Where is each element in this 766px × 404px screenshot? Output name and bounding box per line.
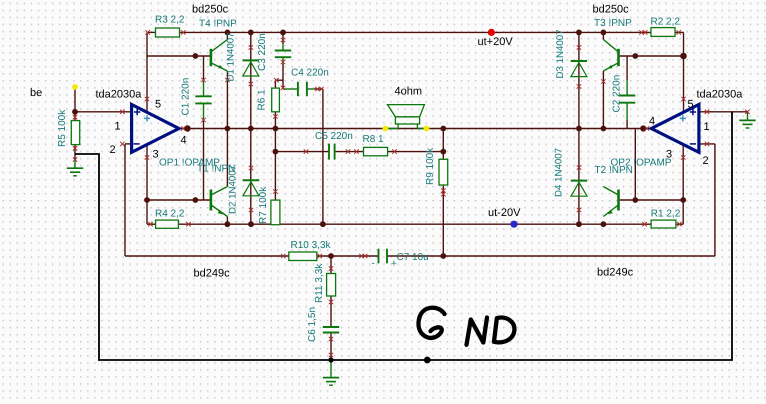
svg-text:C5 220n: C5 220n (315, 131, 353, 142)
svg-text:be: be (30, 87, 42, 99)
svg-text:R5 100k: R5 100k (57, 109, 68, 147)
svg-text:tda2030a: tda2030a (96, 89, 143, 101)
svg-text:R6 1: R6 1 (257, 89, 268, 111)
svg-text:ut-20V: ut-20V (488, 207, 521, 219)
svg-text:bd250c: bd250c (593, 4, 630, 16)
svg-text:R7 100k: R7 100k (258, 186, 269, 224)
svg-text:D1 1N4007: D1 1N4007 (226, 32, 237, 81)
svg-text:C2 220n: C2 220n (612, 75, 623, 113)
svg-text:T4 !PNP: T4 !PNP (199, 19, 237, 30)
svg-text:T3 !PNP: T3 !PNP (594, 18, 632, 29)
svg-text:T2 !NPN: T2 !NPN (595, 165, 633, 176)
svg-text:R2 2,2: R2 2,2 (651, 17, 681, 28)
svg-text:1: 1 (115, 121, 121, 133)
svg-text:D4 1N4007: D4 1N4007 (554, 148, 565, 197)
svg-text:ut+20V: ut+20V (478, 36, 514, 48)
svg-text:2: 2 (110, 144, 116, 156)
svg-text:bd249c: bd249c (597, 267, 634, 279)
svg-text:+: + (391, 259, 397, 270)
svg-text:C4 220n: C4 220n (291, 68, 329, 79)
svg-text:3: 3 (153, 149, 159, 161)
svg-text:C6 1,5n: C6 1,5n (307, 307, 318, 342)
svg-text:R10 3,3k: R10 3,3k (291, 240, 332, 251)
svg-text:4: 4 (649, 116, 655, 128)
svg-text:4ohm: 4ohm (395, 86, 423, 98)
svg-text:bd250c: bd250c (192, 4, 229, 16)
svg-text:bd249c: bd249c (194, 268, 231, 280)
svg-text:C7 10u: C7 10u (397, 252, 429, 263)
svg-text:R1 2,2: R1 2,2 (651, 209, 681, 220)
svg-text:2: 2 (703, 155, 709, 167)
svg-text:R11 3,3k: R11 3,3k (314, 263, 325, 303)
svg-text:C1 220n: C1 220n (181, 78, 192, 116)
svg-text:C3 220n: C3 220n (257, 33, 268, 71)
svg-text:1: 1 (704, 121, 710, 133)
svg-text:R3 2,2: R3 2,2 (155, 15, 185, 26)
svg-text:5: 5 (688, 99, 694, 111)
svg-text:4: 4 (181, 135, 187, 147)
svg-text:tda2030a: tda2030a (697, 89, 744, 101)
svg-text:R8 1: R8 1 (363, 134, 385, 145)
svg-text:D2 1N4007: D2 1N4007 (228, 165, 239, 214)
svg-text:R9 100k: R9 100k (425, 147, 436, 185)
svg-text:5: 5 (155, 99, 161, 111)
svg-text:D3 1N4007: D3 1N4007 (555, 29, 566, 78)
svg-text:R4 2,2: R4 2,2 (155, 209, 185, 220)
svg-text:-: - (372, 258, 375, 269)
